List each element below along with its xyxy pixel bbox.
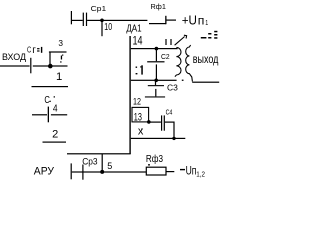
svg-text:х: х: [138, 125, 144, 137]
svg-text:1: 1: [56, 71, 62, 83]
svg-text:С: С: [27, 46, 31, 55]
svg-text:ВХОД: ВХОД: [2, 52, 27, 62]
svg-text:12: 12: [133, 96, 141, 106]
svg-text:13: 13: [134, 112, 142, 124]
svg-text:10: 10: [104, 22, 112, 33]
svg-text:1,2: 1,2: [196, 170, 205, 179]
svg-text:С4: С4: [166, 109, 173, 116]
svg-text:2: 2: [52, 128, 58, 140]
svg-text:+U: +U: [182, 12, 197, 27]
svg-text:Rф3: Rф3: [146, 154, 163, 165]
svg-text:С: С: [44, 95, 50, 106]
svg-text:г: г: [32, 45, 36, 56]
svg-text:3: 3: [58, 38, 63, 48]
svg-text:выход: выход: [193, 54, 219, 66]
svg-text:Ср1: Ср1: [91, 6, 107, 13]
svg-text:1: 1: [205, 18, 208, 27]
svg-text:п: п: [198, 14, 205, 28]
svg-text:Ср3: Ср3: [82, 156, 97, 166]
svg-text:С3: С3: [167, 83, 178, 92]
svg-text:С2: С2: [161, 52, 170, 61]
svg-text:14: 14: [133, 34, 143, 48]
svg-text:Uп: Uп: [186, 164, 197, 177]
svg-text:4: 4: [53, 103, 58, 114]
svg-text:5: 5: [107, 161, 112, 171]
svg-text:АРУ: АРУ: [34, 166, 55, 178]
svg-text:Rф1: Rф1: [151, 2, 166, 11]
